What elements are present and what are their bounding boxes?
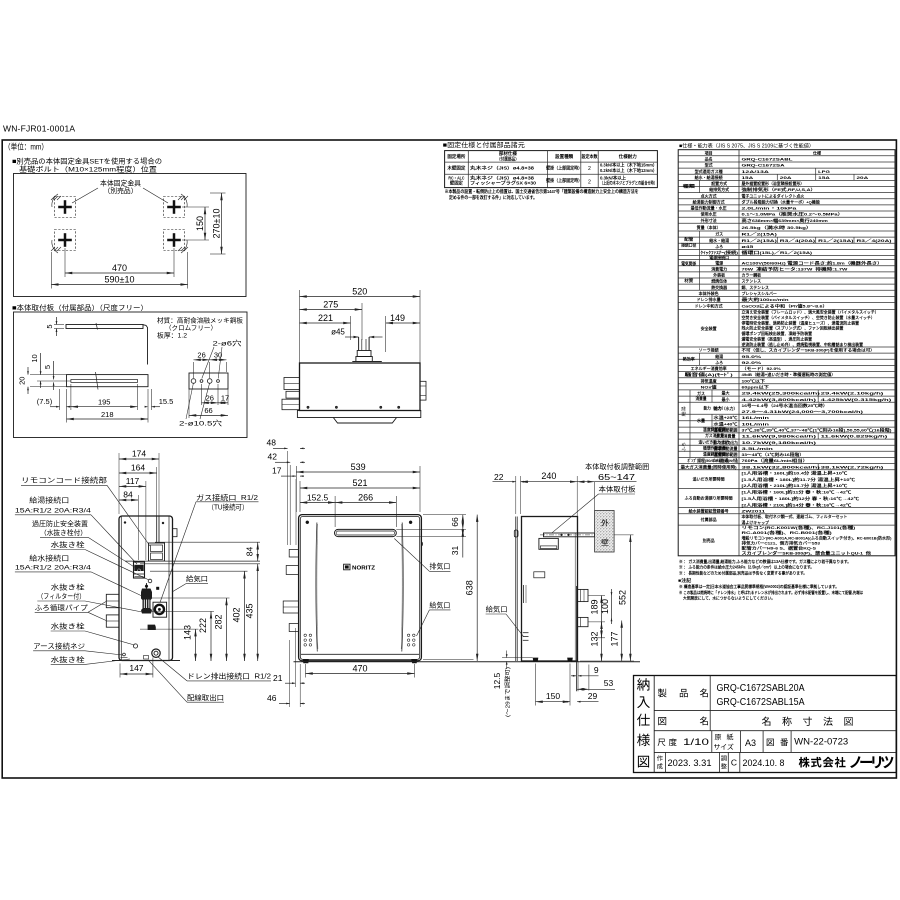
svg-text:[1.5人用浴槽・180L]約11.7分 湯温上昇+10℃: [1.5人用浴槽・180L]約11.7分 湯温上昇+10℃ (742, 476, 856, 482)
svg-text:520: 520 (352, 286, 367, 296)
svg-text:材質：高耐食溶融メッキ鋼板: 材質：高耐食溶融メッキ鋼板 (157, 316, 244, 325)
svg-text:燃焼缶体: 燃焼缶体 (710, 278, 728, 284)
svg-text:給湯: 給湯 (680, 406, 686, 416)
svg-text:539: 539 (351, 462, 366, 472)
svg-text:大気開放にして、水につからないようにしてください。: 大気開放にして、水につからないようにしてください。 (683, 594, 775, 601)
bath adapter dark blob (148, 625, 156, 630)
dim 402 (150, 570, 248, 572)
dim 143 (140, 628, 199, 630)
svg-text:追いだき所要時間: 追いだき所要時間 (693, 476, 725, 482)
dim 275 (361, 303, 363, 340)
back pipes upper (578, 589, 589, 601)
svg-text:丸木ネジ（JIS）ø4.8×38: 丸木ネジ（JIS）ø4.8×38 (469, 165, 535, 172)
dim 218 (66, 389, 68, 423)
svg-text:（上記の木ネジとプラグとの組合せ時）: （上記の木ネジとプラグとの組合せ時） (600, 180, 657, 187)
dim 65-147 (577, 481, 594, 483)
svg-text:排気カバーC121、側方排気カバーS53: 排気カバーC121、側方排気カバーS53 (742, 539, 821, 545)
svg-text:フィッシャープラグSX 6×30: フィッシャープラグSX 6×30 (470, 180, 537, 187)
svg-text:銅、ステンレス: 銅、ステンレス (742, 284, 769, 290)
svg-text:95.0%: 95.0% (742, 354, 762, 359)
svg-text:2024.10. 8: 2024.10. 8 (743, 758, 785, 768)
svg-text:木壁固定: 木壁固定 (446, 165, 466, 172)
svg-text:100℃以下: 100℃以下 (742, 377, 766, 383)
svg-text:240: 240 (541, 471, 556, 481)
dim 66 exhaust (423, 514, 466, 516)
drawing name cell (658, 717, 666, 725)
svg-text:100: 100 (600, 599, 610, 614)
svg-text:スカイブレンダーSKB-300(P)、態合量ユニットQU-1: スカイブレンダーSKB-300(P)、態合量ユニットQU-1 他 (742, 550, 871, 556)
svg-text:最低作動流量・水圧: 最低作動流量・水圧 (691, 205, 727, 211)
svg-text:高さ638mm×幅639mm×奥行240mm: 高さ638mm×幅639mm×奥行240mm (742, 217, 829, 223)
hole phi6 right (217, 380, 220, 383)
spec table group cells (698, 180, 700, 192)
svg-text:22: 22 (494, 472, 504, 482)
svg-text:GRQ-C1672SA: GRQ-C1672SA (742, 163, 785, 168)
dim 270±10 (210, 192, 226, 194)
svg-text:水量: 水量 (696, 417, 705, 423)
svg-text:2: 2 (588, 166, 591, 172)
dim 17 bottom (227, 389, 229, 405)
svg-text:16L/min: 16L/min (742, 415, 770, 420)
svg-text:21: 21 (273, 673, 283, 683)
svg-text:壁: 壁 (601, 538, 609, 547)
svg-text:定める件の一部を改訂する件」に対応しています。: 定める件の一部を改訂する件」に対応しています。 (448, 194, 537, 201)
svg-text:282: 282 (214, 614, 224, 629)
dim 26 top (193, 362, 195, 378)
svg-text:■固定仕様と付属部品諸元: ■固定仕様と付属部品諸元 (443, 140, 526, 149)
svg-text:温度調節範囲: 温度調節範囲 (703, 451, 726, 457)
svg-text:11.6kW(0.829kg/h): 11.6kW(0.829kg/h) (821, 434, 889, 439)
wall face line (594, 482, 596, 511)
right side intake louvres (523, 632, 529, 634)
NORITZ logo (344, 564, 350, 570)
svg-text:■別売品の本体固定金具SETを使用する場合の: ■別売品の本体固定金具SETを使用する場合の (12, 157, 162, 166)
svg-text:ソーラ接続: ソーラ接続 (699, 347, 719, 353)
dim 31 exhaust (396, 536, 466, 538)
svg-text:221: 221 (318, 313, 333, 323)
svg-text:給湯能力制御方式: 給湯能力制御方式 (693, 198, 725, 204)
drain cock small (133, 644, 137, 648)
svg-text:リモコンコード接続部: リモコンコード接続部 (21, 476, 107, 485)
svg-text:435: 435 (245, 603, 255, 618)
svg-text:ふろ循環パイプ: ふろ循環パイプ (35, 603, 88, 612)
svg-text:WN-FJR01-0001A: WN-FJR01-0001A (3, 124, 75, 134)
svg-text:ZW2011: ZW2011 (742, 508, 767, 513)
left side view top dims 174/164/117/84 (118, 453, 120, 514)
svg-text:設置種類: 設置種類 (555, 153, 574, 160)
svg-text:2.0L/min・10kPa: 2.0L/min・10kPa (742, 206, 798, 211)
svg-text:66: 66 (450, 517, 460, 527)
dim 5 slot (53, 361, 55, 380)
bottom panel line (301, 653, 419, 655)
left side right tab (173, 529, 178, 537)
svg-text:配管: 配管 (684, 236, 693, 242)
svg-text:20A: 20A (857, 175, 869, 180)
leader to top-right bolt (143, 188, 168, 203)
right side ground ext (580, 660, 634, 662)
svg-text:266: 266 (358, 492, 373, 502)
svg-text:R1／2(15A): R1／2(15A) (818, 237, 854, 243)
dim 30 top (225, 362, 227, 372)
svg-text:NORITZ: NORITZ (352, 565, 376, 571)
svg-text:R1／2(15A): R1／2(15A) (742, 231, 778, 237)
svg-text:552: 552 (617, 590, 627, 605)
top view feet screw dots (307, 406, 309, 408)
top view right tab (420, 381, 426, 400)
svg-text:5: 5 (45, 324, 54, 328)
svg-text:[1人用浴槽・160L]約10.4分 湯温上昇+10℃: [1人用浴槽・160L]約10.4分 湯温上昇+10℃ (742, 470, 848, 476)
title block vertical 納入仕様図 (653, 676, 655, 773)
anchor bolt top-right (164, 197, 185, 218)
overflow bump right edge (421, 542, 422, 546)
svg-text:ガス: ガス (715, 231, 723, 237)
svg-text:152.5: 152.5 (307, 492, 329, 502)
svg-text:能力（水力）: 能力（水力） (704, 404, 726, 410)
svg-text:騒音値(A)(ﾓｰﾄﾞ): 騒音値(A)(ﾓｰﾄﾞ) (685, 371, 734, 377)
svg-text:給気口: 給気口 (429, 601, 450, 610)
svg-text:ふろ: ふろ (680, 442, 686, 452)
svg-text:10: 10 (30, 354, 39, 362)
right side louvre top (523, 585, 525, 603)
svg-text:強制排気形（FE式,RF,U,S,A）: 強制排気形（FE式,RF,U,S,A） (742, 186, 816, 192)
dim 240 (521, 481, 578, 483)
sheet border frame (2, 140, 896, 778)
dim 282 (145, 597, 230, 599)
svg-text:GRQ-C1672SABL20A: GRQ-C1672SABL20A (717, 682, 805, 694)
svg-text:38.1kW(32,800kcal/h): 38.1kW(32,800kcal/h) (742, 464, 822, 469)
svg-text:点火方式: 点火方式 (701, 192, 717, 198)
svg-text:GRQ-C1672SABL15A: GRQ-C1672SABL15A (717, 696, 805, 708)
dim 26 bottom (201, 384, 203, 405)
exhaust flange (357, 351, 371, 357)
front view inner panel (300, 516, 419, 659)
svg-text:20: 20 (18, 377, 27, 385)
svg-text:温度調節範囲: 温度調節範囲 (703, 426, 726, 432)
dim 10 (40, 353, 42, 375)
svg-text:ガス: ガス (697, 390, 705, 396)
svg-text:ふろ自動お湯張り所要時間: ふろ自動お湯張り所要時間 (685, 495, 733, 501)
svg-text:[2人用浴槽・210L]約13.7分 湯温上昇+10℃: [2人用浴槽・210L]約13.7分 湯温上昇+10℃ (742, 482, 848, 488)
svg-text:60ppm以下: 60ppm以下 (742, 383, 769, 389)
svg-text:給排気方式: 給排気方式 (709, 186, 729, 192)
dim 149 (385, 316, 387, 352)
svg-text:給水装置認証登録番号: 給水装置認証登録番号 (689, 507, 729, 513)
front left pipe stubs (289, 550, 298, 558)
top dims right side view (515, 476, 517, 514)
svg-text:150: 150 (195, 216, 205, 231)
anchor-bolt diagram box (14, 174, 247, 297)
svg-text:33～48℃（1℃刻み16段階）: 33～48℃（1℃刻み16段階） (742, 451, 805, 457)
svg-text:11.6kW(9,980kcal/h): 11.6kW(9,980kcal/h) (742, 434, 818, 439)
ext line hot water level (125, 560, 260, 562)
svg-text:[1.5人用浴槽・180L]約12分 春・秋:16℃→42℃: [1.5人用浴槽・180L]約12分 春・秋:16℃→42℃ (742, 495, 860, 501)
svg-text:49dB（給湯+追いだき時・準備運転時の測定値）: 49dB（給湯+追いだき時・準備運転時の測定値） (742, 371, 836, 377)
svg-text:218: 218 (101, 410, 114, 419)
svg-text:ふろ: ふろ (715, 243, 723, 249)
svg-text:不可（但し、スカイブレンダーSKB-300(P)を使用する場: 不可（但し、スカイブレンダーSKB-300(P)を使用する場合は可） (742, 347, 875, 353)
svg-text:最小: 最小 (722, 396, 730, 402)
exhaust pipe top view (358, 337, 360, 351)
svg-text:470: 470 (112, 263, 127, 273)
hole phi6 left (200, 380, 203, 383)
dim 150 bolt pitch vertical (182, 206, 209, 208)
ext line gas level (155, 541, 260, 543)
dim 470 front (305, 664, 307, 678)
front top screws (306, 521, 309, 524)
dim 150 bottom (535, 664, 537, 706)
gas pipe in side view (156, 516, 158, 543)
svg-text:湯よけキャップ: 湯よけキャップ (742, 519, 770, 525)
svg-text:[1人用浴槽・160L]約11分 春・秋:16℃→42℃: [1人用浴槽・160L]約11分 春・秋:16℃→42℃ (742, 489, 852, 495)
svg-text:■注記: ■注記 (678, 577, 691, 584)
svg-text:逆流防止装置（逃し止め弁）、燃焼監視装置、中和層詰まり検出装: 逆流防止装置（逃し止め弁）、燃焼監視装置、中和層詰まり検出装置 (742, 341, 864, 347)
svg-text:循環ポンプ回転検出装置、凍結予防装置: 循環ポンプ回転検出装置、凍結予防装置 (742, 330, 813, 336)
svg-text:NOx値: NOx値 (701, 383, 717, 389)
svg-text:給湯: 給湯 (715, 353, 723, 359)
svg-text:15A: 15A (742, 175, 754, 180)
plate top view bar (66, 325, 143, 329)
svg-text:電源: 電源 (715, 259, 723, 265)
svg-text:17: 17 (221, 394, 229, 403)
svg-text:増設リモコン(RC-A001A,RC-B001A)(ふろ自動: 増設リモコン(RC-A001A,RC-B001A)(ふろ自動スイッチ付き)、RC… (742, 534, 893, 540)
svg-text:配管カバーH9-6 S、据置台KQ-S: 配管カバーH9-6 S、据置台KQ-S (742, 544, 817, 550)
gas cock plate (153, 602, 167, 617)
dim 195 (70, 384, 72, 410)
svg-text:外装板: 外装板 (712, 272, 726, 278)
svg-text:品名: 品名 (705, 156, 713, 162)
svg-text:壁掛（上部固定時）: 壁掛（上部固定時） (546, 165, 582, 172)
pipe dims 100 (611, 589, 613, 624)
right side view door face (515, 517, 517, 662)
svg-text:26.5kg（満水時 30.5kg）: 26.5kg（満水時 30.5kg） (742, 224, 813, 230)
svg-text:給水・給湯: 給水・給湯 (709, 237, 729, 243)
remote cord box (149, 543, 165, 561)
svg-text:4.425kW(0.315kg/h): 4.425kW(0.315kg/h) (821, 397, 893, 402)
ground line (294, 661, 641, 663)
svg-text:C: C (731, 758, 737, 768)
dim 152.5 (334, 496, 336, 527)
dim 539 (295, 466, 297, 512)
svg-text:10.7kW(9,180kcal/h): 10.7kW(9,180kcal/h) (742, 440, 818, 445)
svg-text:質量（本体）: 質量（本体） (696, 224, 721, 230)
svg-text:1/10: 1/10 (683, 737, 709, 747)
svg-text:消費電力: 消費電力 (711, 265, 727, 271)
right side nameplate (534, 572, 545, 578)
svg-text:外: 外 (601, 519, 609, 528)
svg-text:接続口径: 接続口径 (681, 242, 696, 248)
svg-text:70W 凍結予防ヒータ:137W 待機時:1.7W: 70W 凍結予防ヒータ:137W 待機時:1.7W (742, 265, 848, 271)
svg-text:水抜き栓: 水抜き栓 (51, 622, 85, 631)
svg-text:(7.5): (7.5) (37, 397, 53, 406)
svg-text:53: 53 (604, 678, 614, 688)
noritz corporate logo (799, 757, 810, 768)
plate bend L profile (143, 325, 148, 365)
svg-text:種類: 種類 (683, 183, 696, 189)
svg-text:164: 164 (131, 463, 145, 473)
svg-text:275: 275 (323, 299, 338, 309)
svg-text:174: 174 (132, 449, 146, 459)
svg-text:項目: 項目 (705, 149, 713, 155)
svg-text:本体取付板調整範囲: 本体取付板調整範囲 (585, 462, 649, 471)
svg-text:66: 66 (204, 406, 212, 415)
svg-text:ガス消費量: ガス消費量 (705, 432, 724, 438)
svg-text:26: 26 (206, 394, 214, 403)
svg-text:760Pa（流量6L/min相当）: 760Pa（流量6L/min相当） (742, 457, 809, 463)
svg-text:[2人用浴槽・210L]約14分 春・秋:16℃→42℃: [2人用浴槽・210L]約14分 春・秋:16℃→42℃ (742, 501, 852, 507)
dim 435 (140, 563, 260, 565)
svg-text:本体取付板: 本体取付板 (599, 485, 636, 494)
front feet (303, 659, 309, 663)
svg-text:A3: A3 (745, 738, 756, 748)
svg-text:AC100V(50/60Hz) 電源コード長さ:約1.8m（: AC100V(50/60Hz) 電源コード長さ:約1.8m（機器外長さ） (742, 259, 883, 265)
svg-text:GRQ-C1672SABL: GRQ-C1672SABL (742, 157, 794, 162)
product name cell (709, 676, 711, 731)
svg-text:壁掛（上部固定時）: 壁掛（上部固定時） (546, 177, 582, 184)
dim 638 height (423, 659, 474, 661)
svg-text:CaCO3による中和（Ph値5.8～8.6）: CaCO3による中和（Ph値5.8～8.6） (742, 303, 828, 309)
svg-text:ドレン排出接続口 R1/2: ドレン排出接続口 R1/2 (187, 672, 271, 681)
svg-text:0.1～1.0MPa（推奨水圧0.2～0.5MPa）: 0.1～1.0MPa（推奨水圧0.2～0.5MPa） (742, 211, 844, 217)
svg-text:46: 46 (267, 693, 277, 703)
svg-text:過圧防止安全装置: 過圧防止安全装置 (32, 519, 88, 528)
svg-text:189: 189 (590, 599, 600, 614)
svg-text:水温+40℃: 水温+40℃ (712, 421, 737, 427)
svg-text:■仕様・能力表（JIS S 2075、JIS S 2109に: ■仕様・能力表（JIS S 2075、JIS S 2109に基づく性能値） (679, 141, 814, 149)
svg-text:板厚：1.2: 板厚：1.2 (157, 331, 187, 340)
svg-text:ステンレス: ステンレス (742, 278, 762, 284)
svg-text:16号～6.4号（24号水温当回数25℃時）: 16号～6.4号（24号水温当回数25℃時） (742, 402, 828, 408)
svg-text:残火防止安全装置（スプリング式）、ファン回転検出装置: 残火防止安全装置（スプリング式）、ファン回転検出装置 (742, 325, 844, 331)
svg-text:（単位：mm）: （単位：mm） (4, 142, 48, 152)
svg-text:（付属部品）: （付属部品） (497, 155, 519, 162)
hole phi10.5 left (191, 379, 196, 384)
dim 29 bottom (567, 701, 570, 703)
svg-text:150: 150 (546, 691, 560, 701)
svg-text:（TU接続可）: （TU接続可） (208, 502, 249, 511)
water drain small mid (148, 579, 152, 583)
right side feet (533, 658, 539, 662)
svg-text:147: 147 (129, 663, 143, 673)
hot water valve (134, 562, 145, 578)
svg-text:（別売品）: （別売品） (104, 186, 138, 195)
svg-text:給水接続口: 給水接続口 (29, 553, 69, 562)
svg-text:アース接続ネジ: アース接続ネジ (33, 641, 85, 650)
svg-text:最大約100cc/min: 最大約100cc/min (742, 296, 790, 302)
mounting-plate box (14, 312, 248, 438)
svg-text:92.0%: 92.0% (742, 360, 762, 365)
svg-text:ドレン中和方式: ドレン中和方式 (695, 303, 723, 309)
svg-text:壁固定: 壁固定 (450, 180, 464, 187)
svg-text:29.4kW(25,300kcal/h): 29.4kW(25,300kcal/h) (742, 391, 822, 396)
front panel seam right (402, 523, 403, 652)
svg-text:ふろ: ふろ (715, 359, 723, 365)
leader to top-left bolt (72, 188, 98, 203)
svg-text:給気口: 給気口 (186, 574, 208, 583)
svg-text:本体取付板、取付ネジ類一式、連結ゴム、フィルターセット: 本体取付板、取付ネジ類一式、連結ゴム、フィルターセット (741, 513, 848, 519)
svg-text:（フィルター付）: （フィルター付） (37, 592, 85, 601)
scale row (711, 731, 713, 753)
svg-text:222: 222 (198, 618, 208, 633)
plate slot (71, 380, 138, 383)
svg-text:37℃,38℃,39℃,40℃,37～48℃(1℃刻み16段: 37℃,38℃,39℃,40℃,37～48℃(1℃刻み16段),50,55,60… (742, 427, 893, 433)
svg-text:ドレン排水量: ドレン排水量 (697, 296, 721, 302)
svg-text:最大: 最大 (722, 390, 730, 396)
dim 470 bolt pitch horizontal (64, 248, 66, 277)
svg-text:2-ø10.5穴: 2-ø10.5穴 (179, 419, 222, 428)
wiring outlet mark (144, 656, 149, 660)
svg-text:排気口: 排気口 (429, 562, 450, 571)
svg-text:ガス接続口 R1/2: ガス接続口 R1/2 (196, 493, 258, 502)
right side remote bump (514, 530, 518, 537)
svg-text:48: 48 (267, 438, 277, 448)
svg-text:ø45: ø45 (331, 328, 345, 337)
svg-text:84: 84 (123, 490, 133, 500)
svg-text:最大ガス消費量(同時使用時): 最大ガス消費量(同時使用時) (681, 463, 738, 469)
svg-text:水抜き栓: 水抜き栓 (51, 583, 85, 592)
svg-text:空焚き安全装置（バイメタルスイッチ）、空焚き防止装置（水量ス: 空焚き安全装置（バイメタルスイッチ）、空焚き防止装置（水量スイッチ） (742, 314, 875, 320)
svg-text:停電時安全装置、過熱防止装置（温度ヒューズ）、過電流防止装置: 停電時安全装置、過熱防止装置（温度ヒューズ）、過電流防止装置 (742, 319, 860, 325)
svg-text:（クロムフリー）: （クロムフリー） (165, 324, 217, 332)
svg-text:漏電安全装置（高温型）、過圧防止装置: 漏電安全装置（高温型）、過圧防止装置 (742, 335, 813, 341)
svg-text:水抜き栓: 水抜き栓 (51, 655, 85, 664)
svg-text:熱交換器: 熱交換器 (711, 284, 728, 290)
plate front view (67, 375, 149, 387)
title block row lines (654, 709, 896, 711)
svg-text:ø45: ø45 (742, 244, 755, 249)
svg-text:型式適用ガス種: 型式適用ガス種 (695, 168, 723, 174)
drain pipe below (575, 586, 577, 691)
svg-text:15.5: 15.5 (159, 397, 174, 406)
fixing table grid (445, 151, 658, 188)
title block frame (634, 676, 897, 773)
svg-text:循環作動流量: 循環作動流量 (703, 445, 726, 451)
svg-text:設置方式: 設置方式 (711, 180, 727, 186)
svg-text:15A:R1/2 20A:R3/4: 15A:R1/2 20A:R3/4 (15, 507, 91, 514)
top view front trapezoid (333, 418, 396, 424)
dim 84 side (257, 542, 259, 561)
svg-text:※ ： 長期性能などのため付属部品,別売品は予告なく変更する: ※ ： 長期性能などのため付属部品,別売品は予告なく変更する事があります。 (679, 569, 807, 576)
top view base pan (297, 411, 420, 418)
pipe dims 177 (621, 621, 623, 662)
svg-text:循環口(15L)／R1／2(15A): 循環口(15L)／R1／2(15A) (742, 249, 814, 255)
svg-text:84: 84 (245, 547, 255, 557)
svg-text:195: 195 (98, 398, 111, 407)
outer wall hatched (595, 511, 615, 553)
right side exhaust recess (539, 538, 558, 549)
svg-text:20A: 20A (780, 175, 792, 180)
svg-text:177: 177 (610, 631, 620, 646)
svg-text:カラー鋼板: カラー鋼板 (742, 272, 763, 278)
plate top view dim 5 (54, 324, 64, 326)
dim 147 bottom (119, 664, 121, 678)
svg-text:消費量: 消費量 (696, 395, 707, 401)
svg-text:470: 470 (352, 663, 367, 673)
svg-text:熱効率: 熱効率 (683, 355, 695, 361)
dim 221 (350, 316, 352, 340)
svg-text:付属部品: 付属部品 (701, 516, 717, 522)
drain outlet (152, 649, 160, 657)
svg-text:WN-22-0723: WN-22-0723 (794, 737, 848, 747)
svg-text:31: 31 (450, 546, 460, 556)
dim 520 (299, 290, 301, 363)
svg-text:402: 402 (232, 607, 242, 622)
earth screw (123, 653, 126, 656)
svg-text:電源接続口: 電源接続口 (709, 254, 729, 260)
svg-text:R3／4(20A): R3／4(20A) (857, 237, 893, 243)
svg-text:132: 132 (590, 631, 600, 646)
svg-text:仕様: 仕様 (812, 149, 822, 155)
right side view body (522, 517, 578, 662)
